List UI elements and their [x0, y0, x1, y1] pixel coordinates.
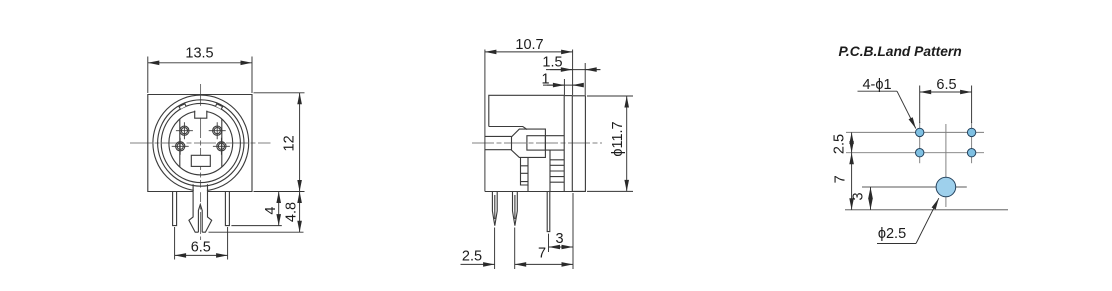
pad hole top-left: [916, 128, 924, 136]
extension line leg2: [514, 228, 516, 270]
dim 2.5 bottom line: [461, 263, 495, 265]
svg-text:4-ϕ1: 4-ϕ1: [862, 77, 891, 93]
extension line flange bottom: [572, 193, 574, 269]
keyway cutout: [195, 106, 207, 118]
front flange: [572, 96, 585, 192]
label 4-phi1 leader: [858, 90, 898, 92]
contact arms left: [485, 136, 512, 149]
latch inner rectangle: [527, 136, 546, 150]
front view dimensions: [148, 57, 305, 260]
latch lines to right wall: [545, 136, 564, 150]
insert face circle: [169, 111, 233, 175]
side leg 2: [513, 192, 518, 226]
dim phi11.7 extension lines: [587, 96, 633, 191]
pad hole top-right: [967, 128, 975, 136]
centerline horizontal front view: [130, 142, 271, 144]
centerline col2: [971, 122, 973, 163]
svg-text:4: 4: [263, 207, 279, 215]
dim 13.5 line: [148, 62, 252, 64]
pin 2 bottom-right: [213, 138, 230, 155]
svg-text:1.5: 1.5: [542, 55, 562, 71]
dim 6.5 land extension lines: [920, 86, 972, 124]
right rib ladder: [550, 160, 564, 182]
centerline side view: [472, 142, 602, 144]
pin 3 top-left: [176, 122, 193, 139]
centerline col1: [919, 122, 921, 163]
dim 7 bottom line: [515, 263, 573, 265]
right mounting leg front: [225, 192, 229, 226]
svg-text:4.8: 4.8: [284, 202, 300, 222]
dim 1 line and outside arrows: [543, 84, 582, 86]
neck top edge: [564, 95, 572, 97]
dim 1 extension line: [563, 79, 565, 95]
body bottom edge: [485, 191, 586, 193]
extension line leg3: [548, 234, 550, 252]
dim 4.8 line: [299, 192, 301, 233]
dim 1.5 line and outside arrows: [546, 69, 601, 71]
extension line leg1: [494, 228, 496, 270]
dim 7 land line: [851, 153, 853, 210]
svg-text:2.5: 2.5: [832, 134, 848, 154]
left rib ladder: [521, 158, 529, 185]
left shield tab bump: [179, 104, 186, 109]
dim 3 land line: [870, 187, 872, 210]
dim 1.5 extension line right: [584, 63, 586, 95]
connector body square: [148, 95, 252, 192]
svg-text:P.C.B.Land Pattern: P.C.B.Land Pattern: [839, 44, 962, 59]
pcb edge line: [845, 209, 1008, 211]
dim 10.7 extension line right: [572, 50, 574, 96]
dim 12 line: [299, 93, 301, 192]
left mounting leg front: [173, 192, 177, 226]
centerline big hole horizontal: [862, 186, 967, 188]
body right edge: [563, 95, 565, 191]
shield barrel circle: [158, 100, 244, 186]
dim phi11.7 line: [626, 96, 628, 191]
svg-text:ϕ11.7: ϕ11.7: [610, 121, 626, 156]
snap-in peg front: [189, 184, 212, 232]
shield inner circle: [161, 103, 240, 182]
latch bullet: [512, 129, 546, 157]
dim 4 line: [278, 192, 280, 226]
pin 1 bottom-left: [172, 138, 189, 155]
svg-text:6.5: 6.5: [191, 240, 211, 256]
svg-text:7: 7: [538, 246, 546, 262]
dim 12 extension lines: [254, 93, 305, 192]
dim 2.5 land line: [851, 132, 853, 152]
centerline row1: [846, 131, 984, 133]
dim 13.5 extension lines: [148, 57, 252, 94]
svg-text:7: 7: [833, 175, 849, 183]
dim 6.5 extension lines: [175, 227, 228, 260]
svg-text:3: 3: [555, 231, 563, 247]
dim 3 bottom line: [549, 246, 574, 248]
pad hole bottom-left: [916, 149, 924, 157]
centerline big hole vertical: [945, 124, 947, 207]
insert side walls: [180, 119, 222, 167]
dim 6.5 land line: [920, 91, 972, 93]
right shield tab bump: [216, 104, 223, 109]
centerline row2: [846, 152, 984, 154]
svg-text:3: 3: [851, 192, 867, 200]
center slot verticals: [528, 150, 550, 191]
label phi2.5 leader: [877, 243, 916, 245]
dim 10.7 line: [485, 51, 573, 53]
svg-text:12: 12: [282, 135, 298, 151]
svg-text:13.5: 13.5: [185, 46, 213, 62]
svg-text:6.5: 6.5: [936, 77, 956, 93]
big mounting hole: [936, 177, 956, 197]
svg-text:2.5: 2.5: [462, 249, 482, 265]
snap-in peg slit: [198, 205, 202, 233]
outer flange circle: [153, 95, 249, 191]
svg-text:ϕ2.5: ϕ2.5: [878, 226, 906, 242]
dim 4 extension line: [231, 225, 281, 227]
side view dimensions: [461, 50, 634, 270]
center latch rectangle: [191, 155, 210, 166]
dim 6.5 line: [175, 254, 228, 256]
top shield wall: [489, 95, 564, 129]
centerline vertical front view: [200, 84, 202, 240]
svg-text:10.7: 10.7: [515, 37, 543, 53]
pin 4 top-right: [209, 122, 226, 139]
body left edge: [484, 50, 486, 192]
side leg 1: [492, 192, 497, 226]
dim 4.8 extension line: [209, 231, 304, 233]
svg-text:1: 1: [541, 72, 549, 88]
side leg 3: [547, 192, 550, 232]
pad hole bottom-right: [967, 149, 975, 157]
